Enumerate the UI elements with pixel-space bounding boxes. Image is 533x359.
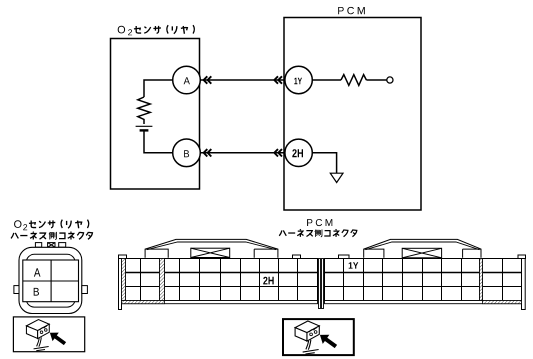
wire to open terminal	[366, 79, 386, 81]
left bottom hatch	[122, 301, 165, 304]
right hatch strip	[480, 259, 483, 301]
left half grid frame	[122, 259, 318, 301]
connector top bowtie	[48, 243, 55, 248]
open terminal circle	[387, 77, 393, 83]
terminal circle 2H	[285, 139, 312, 166]
label harness-side connector	[279, 229, 357, 236]
ground symbol	[330, 173, 343, 182]
wire A to 1Y	[199, 79, 285, 81]
left hood X-box	[191, 248, 230, 257]
right hood X-box	[402, 248, 441, 257]
wire from 2H to ground	[312, 153, 336, 173]
middle post left	[319, 259, 321, 309]
connector side tab right	[82, 286, 88, 294]
PCM box	[284, 18, 421, 211]
terminal label 1Y	[349, 262, 359, 268]
resistor (sensor heater zigzag)	[138, 97, 150, 124]
label PCM	[307, 219, 332, 226]
icon box (PCM)	[283, 319, 354, 355]
left inner hatch strip	[160, 259, 165, 301]
terminal label 2H	[263, 277, 274, 285]
arrow chevrons near PCM 1Y	[274, 76, 282, 83]
terminal grid 2x2	[23, 260, 79, 302]
middle post right	[322, 259, 324, 309]
right bottom hatch	[483, 301, 522, 304]
label harness-side connector	[11, 232, 92, 240]
left hatch strip	[122, 259, 126, 301]
terminal circle 1Y	[285, 66, 312, 93]
arrow chevrons near B	[204, 149, 212, 156]
small tab left of right half	[339, 255, 350, 259]
label O2 sensor (rear)	[14, 220, 89, 231]
left half row lines	[122, 272, 318, 274]
label PCM	[338, 7, 365, 14]
right end post	[522, 259, 526, 310]
PCM internal: wire from 1Y to resistor	[312, 79, 341, 81]
connector outer body	[19, 247, 82, 313]
connector removal icon (PCM)	[295, 321, 337, 354]
right end cap	[518, 255, 526, 259]
label O2 sensor (rear)	[118, 25, 195, 35]
left end post	[119, 259, 122, 310]
arrow chevrons near PCM 2H	[274, 149, 282, 156]
sensor internal wire to B	[144, 132, 173, 153]
connector top latch left	[35, 243, 41, 248]
left end cap	[119, 255, 127, 259]
right half grid frame	[325, 259, 522, 301]
left bottom rail	[122, 301, 318, 304]
right half row lines	[325, 272, 522, 274]
arrow chevrons near A	[204, 76, 212, 83]
small tab right of left half	[293, 255, 301, 259]
left hood outline	[145, 239, 278, 257]
connector removal icon (sensor)	[26, 320, 66, 351]
battery cell symbol	[136, 125, 153, 127]
sensor internal wire from A	[144, 80, 173, 97]
right half column lines	[344, 259, 503, 301]
connector top latch right	[59, 243, 66, 248]
left half column lines	[126, 259, 298, 301]
terminal circle A	[173, 66, 201, 94]
right bottom rail	[325, 301, 522, 304]
wire B to 2H	[199, 152, 285, 154]
O2 sensor box	[111, 39, 200, 190]
terminal label B	[34, 288, 39, 296]
connector side tab left	[14, 286, 19, 294]
terminal circle B	[173, 139, 201, 167]
right hood outline	[364, 239, 481, 257]
icon box (sensor)	[13, 317, 84, 352]
resistor (PCM pull-up zigzag)	[341, 75, 366, 86]
connector inner face	[26, 254, 75, 307]
terminal label A	[34, 268, 41, 276]
